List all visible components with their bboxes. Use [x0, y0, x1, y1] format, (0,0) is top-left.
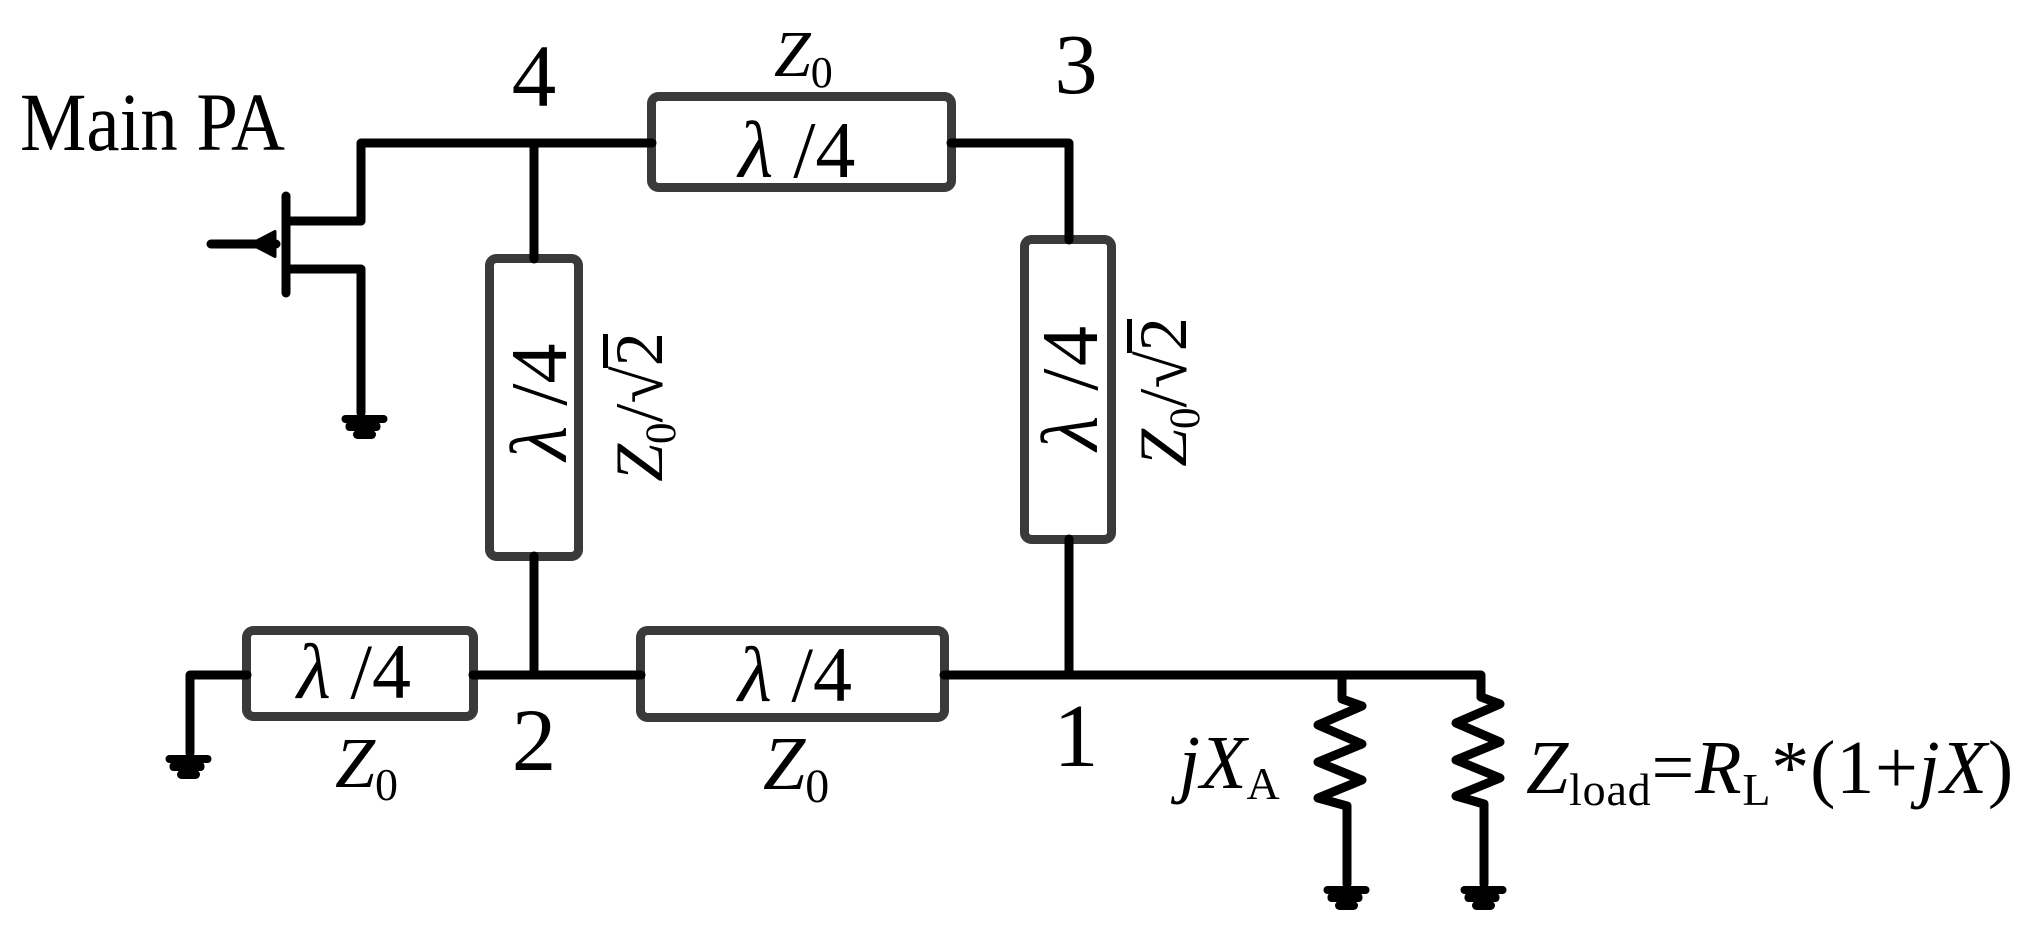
svg-text:4: 4 [512, 28, 557, 126]
svg-text:2: 2 [512, 692, 557, 790]
svg-text:λ /4: λ /4 [736, 631, 852, 718]
svg-text:λ /4: λ /4 [1027, 324, 1115, 453]
svg-text:λ /4: λ /4 [737, 107, 856, 195]
svg-text:λ /4: λ /4 [295, 628, 411, 715]
svg-text:Z0/√2: Z0/√2 [1125, 317, 1209, 467]
svg-text:Main PA: Main PA [20, 76, 285, 168]
svg-text:1: 1 [1054, 687, 1099, 786]
svg-text:λ /4: λ /4 [496, 344, 584, 463]
svg-text:Z0/√2: Z0/√2 [601, 332, 685, 482]
svg-text:3: 3 [1055, 16, 1098, 112]
